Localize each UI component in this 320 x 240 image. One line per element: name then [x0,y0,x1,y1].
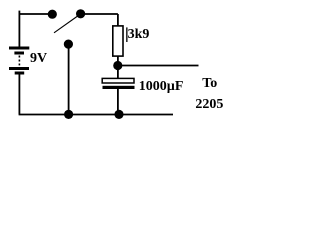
wire top rail [19,13,53,15]
wire capacitor top lead [117,66,119,79]
node junction dot bottom rail left [64,110,73,119]
switch S1 pole dot [64,40,73,49]
node junction dot below resistor [113,61,122,70]
capacitor C1 bottom plate (solid) [103,86,135,89]
svg-text:9V: 9V [30,51,47,66]
wire resistor bottom lead [117,56,119,66]
wire capacitor bottom lead [117,89,119,115]
svg-text:3k9: 3k9 [128,27,150,42]
wire output line to 2205 [118,65,199,67]
capacitor C1 top plate (hollow) [102,78,134,83]
battery dashed cell separator [18,56,20,66]
switch S1 left contact dot [48,10,57,19]
wire left vertical (battery top lead) [18,11,20,47]
wire middle vertical from switch pole to bottom rail [68,44,70,115]
svg-text:To: To [202,76,217,91]
wire battery bottom lead [18,74,20,114]
svg-text:1000µF: 1000µF [139,79,184,94]
wire top rail right segment [81,13,118,15]
text caret before label [126,27,127,42]
node junction dot bottom rail under capacitor [114,110,123,119]
svg-text:2205: 2205 [195,97,223,112]
wire resistor top lead [117,14,119,26]
switch S1 right contact dot [76,9,85,18]
resistor R1 body [113,26,123,56]
wire bottom rail (0V) [19,114,173,116]
switch S1 arm (open blade) [54,14,81,33]
battery B1 9V [9,47,29,75]
